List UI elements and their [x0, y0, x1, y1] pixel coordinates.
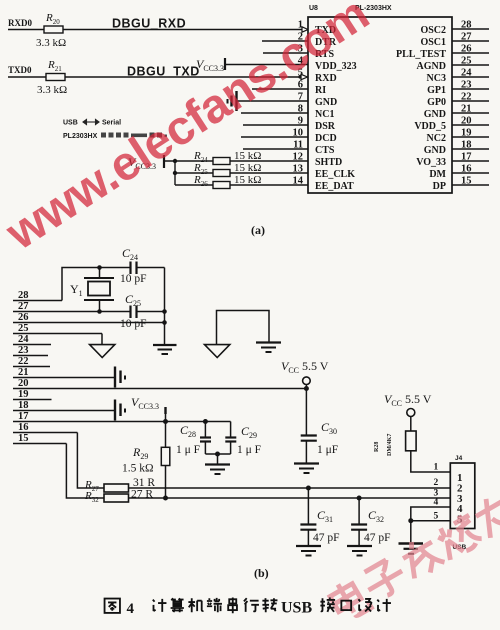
pin 27 wire: [452, 40, 489, 42]
junction node DP/C32: [357, 496, 362, 501]
wire TXD0 to R21: [8, 76, 46, 78]
wire net 21: [13, 377, 114, 379]
resistor R26: [213, 182, 230, 189]
svg-text:NC1: NC1: [315, 109, 334, 120]
svg-text:USB: USB: [281, 600, 312, 617]
wire R20 to chip pin 1: [63, 29, 302, 31]
svg-text:OSC1: OSC1: [420, 37, 446, 48]
ground (signal gnd, net 18): [115, 400, 125, 421]
wire net 16: [13, 432, 77, 434]
resistor R28 (series, vertical): [406, 431, 417, 451]
wire ground bridge: [217, 311, 270, 345]
svg-text:TXD0: TXD0: [8, 65, 32, 75]
pin 15 wire: [452, 184, 489, 186]
resistor R25: [213, 170, 230, 177]
wire rail to R29: [165, 422, 167, 448]
pin 20 wire: [452, 124, 489, 126]
pin 5 marker: [301, 74, 308, 79]
svg-text:14: 14: [293, 176, 304, 187]
wire net 28 riser: [62, 268, 130, 301]
svg-text:8: 8: [298, 104, 303, 115]
svg-text:27: 27: [461, 32, 472, 43]
svg-text:22: 22: [18, 356, 29, 367]
crystal Y1: [84, 268, 114, 312]
caption 图4 计算机端串行转USB接口设计: [105, 599, 120, 613]
capacitor C28: [200, 422, 211, 455]
wire stub pin 11: [243, 148, 308, 150]
svg-text:15: 15: [461, 176, 472, 187]
svg-text:DM: DM: [429, 169, 446, 180]
capacitor C32: [351, 498, 367, 546]
svg-text:J4: J4: [455, 455, 463, 462]
wire R25 to pin 13: [230, 172, 308, 174]
svg-text:27: 27: [18, 301, 29, 312]
svg-text:(b): (b): [254, 566, 269, 580]
capacitor C24: [131, 262, 165, 275]
svg-text:(a): (a): [251, 223, 265, 237]
svg-text:NC2: NC2: [427, 133, 446, 144]
svg-text:23: 23: [18, 345, 29, 356]
svg-text:GP1: GP1: [427, 85, 446, 96]
junction node at R25 branch: [173, 171, 177, 175]
svg-text:12: 12: [293, 152, 304, 163]
capacitor C25: [131, 306, 165, 319]
wire net 26: [13, 322, 165, 324]
ground (hatched) bridge right: [256, 343, 281, 353]
svg-text:VDD_5: VDD_5: [414, 121, 446, 132]
pin 16 wire: [452, 172, 489, 174]
ground (signal gnd, pin 7): [228, 91, 237, 111]
svg-text:20: 20: [18, 378, 29, 389]
svg-text:1.5 kΩ: 1.5 kΩ: [122, 463, 154, 475]
wire net 17: [13, 421, 231, 423]
svg-text:25: 25: [18, 323, 29, 334]
svg-text:RI: RI: [315, 85, 326, 96]
svg-text:VCC 5.5 V: VCC 5.5 V: [384, 392, 432, 408]
wire net 18: [13, 410, 114, 412]
wire net 23: [13, 355, 48, 357]
connector J4 body: [450, 463, 475, 529]
svg-text:47 pF: 47 pF: [364, 532, 391, 544]
svg-text:19: 19: [18, 389, 29, 400]
svg-text:Serial: Serial: [102, 120, 121, 127]
junction node VCC3.3/R29 on rail: [163, 419, 168, 424]
wire net20 to C30: [305, 389, 307, 436]
ground (hatched) C30: [294, 464, 319, 474]
svg-text:GP0: GP0: [427, 97, 446, 108]
svg-text:22: 22: [461, 92, 472, 103]
svg-text:3.3 kΩ: 3.3 kΩ: [36, 37, 66, 49]
wire net 22: [13, 366, 50, 368]
wire rail to C29: [230, 422, 232, 437]
svg-text:NC3: NC3: [427, 73, 446, 84]
resistor R32: [104, 494, 129, 502]
ground (hatched) USB shield: [399, 544, 424, 554]
capacitor C31: [300, 488, 316, 546]
svg-text:1 μF: 1 μF: [317, 444, 338, 456]
svg-text:25: 25: [461, 56, 472, 67]
svg-text:1: 1: [434, 463, 439, 473]
ground (hatched) C28/C29: [205, 465, 230, 475]
wire R29 to DP net: [165, 466, 167, 499]
wire stub pin 9: [243, 124, 308, 126]
svg-text:GND: GND: [424, 109, 446, 120]
svg-text:19: 19: [461, 128, 472, 139]
svg-text:RXD: RXD: [315, 73, 337, 84]
wire R26 to pin 14: [230, 184, 308, 186]
junction node rail / net 26: [162, 320, 167, 325]
resistor R29: [161, 447, 170, 465]
ground (hatched) oscillator: [153, 345, 177, 354]
svg-text:17: 17: [461, 152, 472, 163]
svg-text:7: 7: [298, 92, 303, 103]
pin 28 wire: [452, 28, 489, 30]
wire net 20: [13, 388, 306, 390]
wire R24 to pin 12: [230, 160, 308, 162]
svg-text:DBGU_TXD: DBGU_TXD: [127, 65, 200, 79]
pin 17 wire: [452, 160, 489, 162]
junction node crystal top / C24: [97, 265, 102, 270]
wire C28/C29 common to ground: [205, 454, 230, 465]
svg-text:SHTD: SHTD: [315, 157, 342, 168]
wire stub pin 2: [262, 40, 308, 42]
wire oscillator ground rail: [164, 268, 166, 346]
svg-text:DCD: DCD: [315, 133, 337, 144]
junction node DM/C31: [306, 486, 311, 491]
svg-text:2: 2: [434, 478, 439, 488]
pin 26 wire: [452, 52, 489, 54]
svg-text:15 kΩ: 15 kΩ: [234, 150, 261, 162]
svg-text:DP: DP: [433, 181, 446, 192]
svg-text:28: 28: [18, 290, 29, 301]
pin 19 wire: [452, 136, 489, 138]
junction node rail/C28: [203, 419, 208, 424]
svg-text:VO_33: VO_33: [416, 157, 446, 168]
svg-text:1 μ F: 1 μ F: [237, 444, 261, 456]
ground (triangle) bridge left: [205, 345, 230, 358]
svg-text:24: 24: [18, 334, 29, 345]
resistor R27: [104, 484, 129, 492]
wire DM net (R27 to J4 pin2): [129, 487, 451, 489]
svg-text:21: 21: [18, 367, 29, 378]
svg-text:DBGU_RXD: DBGU_RXD: [112, 17, 186, 31]
svg-text:10 pF: 10 pF: [120, 318, 147, 330]
svg-text:R28: R28: [374, 442, 380, 452]
svg-text:18: 18: [461, 140, 472, 151]
svg-text:GND: GND: [315, 97, 337, 108]
svg-text:4: 4: [434, 498, 439, 508]
junction node rail / C25: [162, 309, 167, 314]
wire net 25 drop: [101, 334, 103, 345]
wire RXD0 to R20: [8, 29, 44, 31]
wire VCC3.3 to pin 4: [225, 64, 308, 66]
pin 23 wire: [452, 88, 489, 90]
wire net 19: [13, 399, 52, 401]
svg-text:16: 16: [18, 422, 29, 433]
svg-text:13: 13: [293, 164, 304, 175]
svg-text:DSR: DSR: [315, 121, 336, 132]
svg-text:20: 20: [461, 116, 472, 127]
svg-text:11: 11: [293, 140, 303, 151]
svg-text:4: 4: [127, 601, 135, 617]
wire R21 to chip pin 5: [65, 76, 301, 78]
svg-text:15 kΩ: 15 kΩ: [234, 162, 261, 174]
svg-text:28: 28: [461, 20, 472, 31]
svg-text:DM/4K7: DM/4K7: [387, 434, 393, 456]
capacitor C30: [301, 436, 317, 464]
resistor R20: [44, 26, 63, 33]
ground (triangle) net 25: [90, 345, 115, 358]
svg-text:PLL_TEST: PLL_TEST: [396, 49, 446, 60]
watermark 电子发烧友 (pink diagonal, hand-drawn glyphs): [327, 490, 500, 623]
ground (hatched) C32: [347, 546, 372, 556]
ground (signal gnd, net 21): [115, 367, 125, 388]
op chip U8 PL-2303HX body: [308, 17, 452, 193]
svg-text:RXD0: RXD0: [8, 18, 32, 28]
svg-text:OSC2: OSC2: [420, 25, 446, 36]
svg-text:EE_DAT: EE_DAT: [315, 181, 354, 192]
junction node pin4/pin5 tie: [408, 518, 413, 523]
wire junction to R24: [175, 160, 213, 162]
junction node C28/C29 gnd: [215, 452, 220, 457]
capacitor C29: [225, 438, 236, 455]
junction node R29/DP: [163, 496, 168, 501]
svg-text:23: 23: [461, 80, 472, 91]
wire net 28: [13, 300, 62, 302]
resistor R21: [46, 74, 65, 81]
svg-text:26: 26: [461, 44, 472, 55]
svg-text:CTS: CTS: [315, 145, 335, 156]
svg-text:16: 16: [461, 164, 472, 175]
svg-text:PL2303HX: PL2303HX: [63, 133, 98, 140]
wire stub pin 6: [252, 88, 308, 90]
svg-text:USB: USB: [63, 120, 78, 127]
svg-text:10 pF: 10 pF: [120, 273, 147, 285]
resistor R24: [213, 158, 230, 165]
svg-text:15: 15: [18, 433, 29, 444]
svg-text:31 R: 31 R: [133, 477, 155, 489]
wire net 25: [13, 333, 102, 335]
wire DP net (R32 to J4 pin3): [129, 497, 451, 499]
wire net 24: [13, 344, 51, 346]
pin 22 wire: [452, 100, 489, 102]
junction node crystal bottom / net 27: [97, 309, 102, 314]
svg-text:3.3 kΩ: 3.3 kΩ: [37, 84, 67, 96]
pin 21 wire: [452, 112, 489, 114]
wire stub pin 3: [263, 52, 308, 54]
junction node VCC5.5/C30 on net 20: [304, 386, 309, 391]
svg-text:21: 21: [461, 104, 472, 115]
svg-text:AGND: AGND: [417, 61, 446, 72]
ground (hatched) C31: [296, 546, 321, 556]
wire net 15: [13, 443, 66, 445]
svg-text:47 pF: 47 pF: [313, 532, 340, 544]
svg-text:26: 26: [18, 312, 29, 323]
svg-text:EE_CLK: EE_CLK: [315, 169, 355, 180]
wire J4 pin 4 to pin 5 / ground: [411, 507, 451, 544]
wire net 16 riser to R27: [77, 433, 104, 489]
pin 25 wire: [452, 64, 489, 66]
wire stub pin 10: [241, 136, 308, 138]
svg-text:18: 18: [18, 400, 29, 411]
svg-text:10: 10: [293, 128, 304, 139]
wire net 15 riser to R32: [66, 444, 104, 499]
svg-text:9: 9: [298, 116, 303, 127]
svg-text:15 kΩ: 15 kΩ: [234, 174, 261, 186]
svg-text:VCC 5.5 V: VCC 5.5 V: [281, 359, 329, 375]
svg-text:17: 17: [18, 411, 29, 422]
svg-text:24: 24: [461, 68, 472, 79]
wire R28 to J4 pin 1: [411, 451, 451, 472]
wire pin 7 to ground: [237, 100, 308, 102]
wire net 27: [13, 311, 130, 313]
pin 24 wire: [452, 76, 489, 78]
wire VCC3.3 to junction: [164, 161, 213, 185]
pin 1 input marker: [302, 27, 308, 32]
pin 18 wire: [452, 148, 489, 150]
svg-text:1 μ F: 1 μ F: [176, 444, 200, 456]
junction node at R24 branch: [173, 159, 177, 163]
wire VCC to R28: [410, 417, 412, 432]
wire stub pin 8: [241, 112, 308, 114]
svg-text:GND: GND: [424, 145, 446, 156]
